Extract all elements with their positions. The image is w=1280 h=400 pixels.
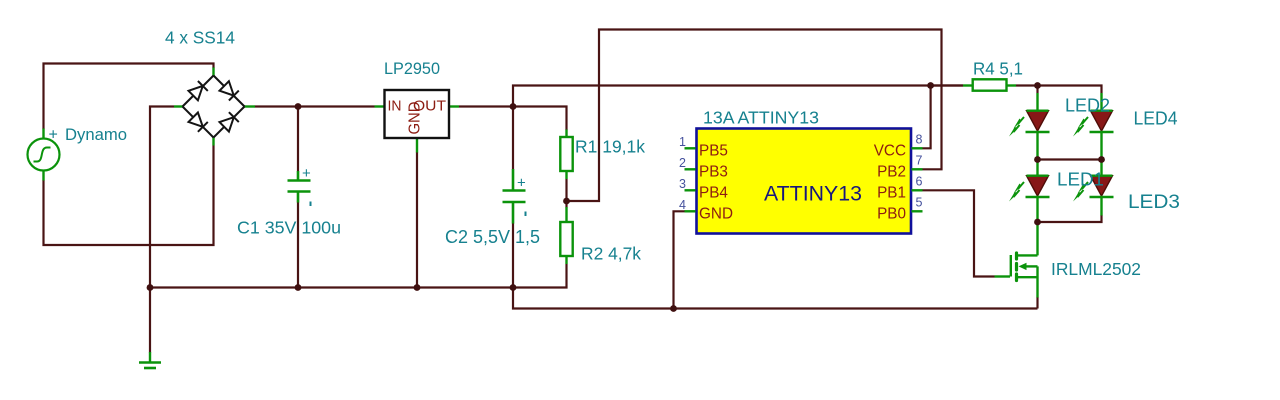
pin stub bridge AC1 top (212, 68, 214, 76)
wire VCC rail to pin 8 (923, 86, 931, 149)
dynamo G1 circle (28, 139, 60, 171)
ground symbol (139, 352, 161, 368)
svg-text:LED1: LED1 (1057, 169, 1104, 190)
wire ATTINY GND pin 4 to ground rail (674, 211, 686, 308)
junction node VCC pin8 branch (927, 82, 934, 89)
svg-text:4 x SS14: 4 x SS14 (165, 28, 235, 48)
wire bridge minus to ground node (150, 107, 174, 288)
wire dynamo bottom to bridge AC2 (44, 146, 214, 246)
svg-text:LED2: LED2 (1065, 96, 1110, 116)
svg-text:PB2: PB2 (877, 164, 906, 181)
LED2 right top symbol (1073, 93, 1114, 160)
svg-text:5: 5 (916, 196, 923, 210)
wire R2 top from divider node (565, 201, 567, 208)
svg-text:Dynamo: Dynamo (65, 125, 127, 144)
wire node VCC to R1 top (513, 107, 567, 131)
junction node divider R1 R2 (563, 198, 570, 205)
wire MOSFET source to ground rail (1036, 297, 1038, 309)
wire R4 left from VCC node (931, 84, 963, 86)
pin stub bridge plus right (245, 105, 256, 107)
svg-text:8: 8 (916, 133, 923, 147)
wire LED left column top drop (1036, 86, 1038, 94)
pin stub R1 bottom (565, 171, 567, 180)
pin stub R4 right (1007, 84, 1017, 86)
svg-text:LP2950: LP2950 (384, 60, 440, 78)
svg-text:+: + (302, 165, 311, 182)
svg-text:R4 5,1: R4 5,1 (973, 59, 1023, 79)
pin stub PB1 pin6 (912, 189, 923, 191)
svg-text:2: 2 (679, 156, 686, 170)
wire R1 bottom to divider node (565, 179, 567, 201)
wire ground rail (150, 264, 567, 288)
svg-text:PB3: PB3 (699, 164, 728, 181)
wire bridge plus to LP2950 IN (255, 105, 375, 107)
wire C2 top lead (512, 107, 514, 170)
pin stub VCC pin8 (912, 147, 923, 149)
pin stub bridge minus left (174, 105, 183, 107)
svg-text:GND: GND (699, 206, 733, 223)
wire C1 top lead (297, 107, 299, 172)
junction node LED left top (1034, 82, 1041, 89)
regulator U2 LP2950 box (385, 90, 450, 138)
svg-text:C2 5,5V 1,5: C2 5,5V 1,5 (445, 227, 540, 247)
junction node ground left (147, 284, 154, 291)
wire LP2950 GND lead down (416, 152, 418, 288)
pin stub PB3 pin2 (685, 168, 696, 170)
wire R4 to LED columns top (1016, 86, 1102, 94)
capacitor C1 minus tick (310, 202, 312, 207)
svg-text:PB0: PB0 (877, 206, 906, 223)
svg-text:+: + (49, 127, 58, 144)
pin stub PB5 pin1 (685, 147, 696, 149)
wire C1 bottom lead (297, 202, 299, 288)
capacitor C1 plates (288, 171, 311, 203)
pin stub LP2950 OUT (449, 105, 459, 107)
wire LED bottom rail (1038, 215, 1102, 222)
svg-text:1: 1 (679, 135, 686, 149)
svg-text:3: 3 (679, 177, 686, 191)
junction node VCC out (510, 103, 517, 110)
svg-text:LED4: LED4 (1134, 109, 1178, 129)
svg-text:PB1: PB1 (877, 185, 906, 202)
junction node LED right mid (1098, 156, 1105, 163)
junction node LED left mid (1034, 156, 1041, 163)
svg-text:IN: IN (388, 99, 402, 115)
wire ground node to ground symbol (149, 288, 151, 353)
svg-text:VCC: VCC (874, 143, 906, 160)
svg-text:IRLML2502: IRLML2502 (1051, 259, 1141, 279)
resistor R4 body (973, 79, 1007, 90)
junction node C1 bottom (295, 284, 302, 291)
svg-text:ATTINY13: ATTINY13 (764, 182, 862, 206)
pin stub R2 top (565, 207, 567, 223)
bridge rectifier diode D2 top-right (214, 76, 245, 107)
svg-text:PB5: PB5 (699, 143, 728, 160)
bridge rectifier diode D3 bottom-left (183, 107, 214, 138)
svg-text:6: 6 (916, 175, 923, 189)
pin stub R2 bottom (565, 256, 567, 265)
svg-text:13A ATTINY13: 13A ATTINY13 (703, 108, 819, 128)
wire PB1 pin 6 to MOSFET gate (923, 190, 995, 276)
LED left bottom symbol (1009, 160, 1050, 223)
dynamo pin stub bottom (42, 171, 44, 181)
svg-text:C1 35V 100u: C1 35V 100u (237, 218, 341, 238)
pin stub GND pin4 (685, 210, 696, 212)
transistor Q1 IRLML2502 (995, 222, 1038, 298)
svg-text:GND: GND (407, 102, 424, 135)
pin stub PB0 pin5 (912, 210, 923, 212)
svg-text:R2 4,7k: R2 4,7k (581, 244, 641, 264)
wire C2 bottom lead (512, 223, 514, 288)
pin stub PB4 pin3 (685, 189, 696, 191)
wire divider node to PB2 pin 7 (567, 30, 942, 202)
pin stub R4 left (963, 84, 973, 86)
pin stub LP2950 GND (416, 138, 418, 153)
junction node C1 top (295, 103, 302, 110)
pin stub R1 top (565, 130, 567, 138)
svg-text:7: 7 (916, 154, 923, 168)
capacitor C2 minus tick (525, 212, 527, 217)
wire LED mid rail (1038, 158, 1102, 160)
svg-text:PB4: PB4 (699, 185, 728, 202)
pin stub bridge AC2 bottom (212, 137, 214, 146)
wire LP2950 OUT to node VCC (459, 105, 513, 107)
junction node C2 bottom (510, 284, 517, 291)
wire C2 node down to lower ground rail (513, 288, 1038, 309)
junction node LED left bottom drain (1034, 219, 1041, 226)
dynamo pin stub top (42, 129, 44, 139)
svg-text:R1 19,1k: R1 19,1k (575, 137, 645, 157)
dynamo waveform (34, 148, 51, 162)
wire dynamo top to bridge AC1 (44, 64, 214, 130)
LED right bottom symbol (1073, 160, 1114, 216)
junction node ATTINY GND rail (670, 305, 677, 312)
pin stub PB2 pin7 (912, 168, 923, 170)
svg-text:+: + (517, 175, 526, 192)
svg-text:4: 4 (679, 198, 686, 212)
bridge rectifier diode D4 bottom-right (214, 107, 245, 138)
bridge rectifier diode D1 top-left (183, 76, 214, 107)
IC U1 ATTINY13 body (697, 129, 912, 234)
resistor R2 body (560, 222, 572, 256)
resistor R1 body (560, 137, 572, 171)
pin stub LP2950 IN (375, 105, 385, 107)
capacitor C2 plates (503, 169, 526, 224)
LED1 left top symbol (1009, 93, 1050, 160)
wire VCC rail (513, 86, 963, 107)
svg-text:LED3: LED3 (1128, 192, 1180, 213)
junction node LP2950 GND (414, 284, 421, 291)
